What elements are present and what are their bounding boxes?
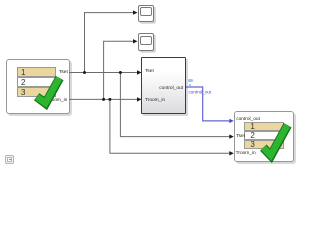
svg-text:control_out: control_out [189,90,212,95]
